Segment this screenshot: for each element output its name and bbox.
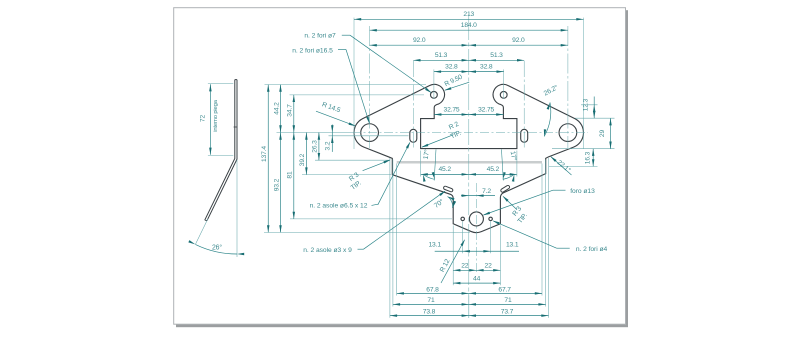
dim 44 [453, 282, 500, 284]
left ear tip ext [353, 18, 355, 149]
bend line (gray) [397, 161, 542, 164]
left slot centerline/ext [412, 61, 414, 150]
ext tab right [516, 151, 518, 177]
slot 6.5x12 right [521, 129, 528, 142]
dim 81 [293, 133, 295, 219]
svg-text:51.3: 51.3 [490, 52, 503, 59]
dim 29 [610, 118, 612, 149]
right slot centerline/ext [523, 61, 525, 150]
dim 34.7 [293, 95, 295, 133]
ext y=104.8 [581, 104, 598, 106]
svg-text:34.7: 34.7 [287, 104, 294, 117]
svg-text:71: 71 [427, 297, 435, 304]
ext lines boss / holes [452, 226, 454, 286]
svg-text:32.75: 32.75 [478, 106, 494, 113]
dim 7.2 [461, 195, 495, 197]
26deg dimension arc [195, 244, 237, 254]
boss vertical centerline [475, 183, 477, 272]
dims 45.2 / 45.2 [421, 173, 517, 175]
ext lines bottom right notch [541, 164, 543, 296]
dim 137.4 [267, 85, 269, 233]
part outline (bracket flat pattern) [354, 84, 583, 232]
hole D16.5 left [361, 124, 379, 142]
ext line top of side view [208, 83, 233, 85]
hole D13 [469, 212, 483, 226]
slot 3x9 right [500, 185, 510, 193]
ext lines bottom left notch [389, 158, 391, 318]
dims 32.8 / 32.8 [434, 71, 504, 73]
svg-text:213: 213 [463, 11, 474, 18]
side view sheet profile [205, 80, 237, 221]
svg-text:92.0: 92.0 [512, 37, 525, 44]
svg-text:137.4: 137.4 [261, 146, 268, 162]
svg-text:72: 72 [200, 115, 207, 123]
svg-text:29: 29 [599, 130, 606, 138]
dims 71 / 71 [393, 303, 546, 305]
dim 44.2 [280, 85, 282, 133]
svg-text:39.2: 39.2 [299, 153, 306, 166]
dims 32.75 / 32.75 [434, 114, 503, 116]
dim 184.0 [370, 29, 568, 31]
ext ear bottom y=148.7 [552, 148, 615, 150]
right ear tip ext [583, 18, 585, 149]
dims 92.0 / 92.0 [370, 44, 568, 46]
dims 51.3 / 51.3 [413, 59, 524, 61]
hole D16.5 right [559, 124, 577, 142]
svg-text:7.2: 7.2 [482, 188, 491, 195]
horizontal centerline [352, 132, 588, 134]
svg-text:13.1: 13.1 [428, 241, 441, 248]
svg-text:n. 2 fori ø16.5: n. 2 fori ø16.5 [292, 47, 333, 54]
svg-text:92.0: 92.0 [413, 37, 426, 44]
svg-text:67.7: 67.7 [498, 287, 511, 294]
svg-text:n. 2 asole ø6.5 x 12: n. 2 asole ø6.5 x 12 [310, 203, 368, 210]
svg-text:45.2: 45.2 [487, 166, 500, 173]
svg-text:26°: 26° [212, 243, 222, 251]
svg-text:184.0: 184.0 [461, 22, 477, 29]
dims 13.1 / 13.1 [435, 250, 519, 252]
dim 93.2 [280, 133, 282, 233]
svg-text:foro ø13: foro ø13 [570, 188, 595, 195]
svg-text:67.8: 67.8 [426, 287, 439, 294]
svg-text:26.3: 26.3 [312, 140, 319, 153]
svg-text:3.2: 3.2 [325, 141, 332, 150]
ext centerline left [277, 132, 353, 134]
hole D7 left [431, 91, 438, 98]
left D7 ext [433, 69, 435, 99]
ext V bottom y=232.4 [264, 231, 470, 233]
svg-text:13.1: 13.1 [506, 241, 519, 248]
right D7 ext [503, 69, 505, 99]
dims 67.8 / 67.7 [397, 292, 542, 294]
ext y=166.4 [549, 165, 598, 167]
dim 72 line [209, 84, 211, 155]
svg-text:32.75: 32.75 [444, 106, 460, 113]
slot 3x9 left [443, 186, 453, 193]
ext notch top y=160.2 [315, 159, 390, 161]
dim 213 [354, 18, 584, 20]
svg-text:n. 2 fori ø4: n. 2 fori ø4 [576, 246, 608, 253]
svg-text:73.8: 73.8 [423, 308, 436, 315]
drawing sheet shadow [176, 10, 628, 327]
vertical centerline [468, 14, 470, 318]
dim 39.2 [305, 133, 307, 175]
dims 22 / 22 [453, 269, 500, 271]
svg-text:32.8: 32.8 [480, 63, 493, 70]
dims 73.8 / 73.7 [390, 315, 549, 317]
svg-text:73.7: 73.7 [501, 308, 514, 315]
svg-text:12.3: 12.3 [582, 98, 589, 111]
svg-text:n. 2 fori ø7: n. 2 fori ø7 [304, 33, 336, 40]
ext tab left [420, 151, 422, 177]
svg-text:71: 71 [504, 297, 512, 304]
ext ear top y=118.2 [575, 117, 615, 119]
ext notch bottom y=174.6 [302, 174, 391, 176]
hole D4 left [461, 217, 465, 221]
svg-text:81: 81 [287, 171, 294, 179]
left hole vertical centerline/ext [369, 26, 371, 148]
ext top of part y=84.6 [265, 84, 427, 86]
svg-text:44.2: 44.2 [273, 102, 280, 115]
dim 26.3 [318, 133, 320, 161]
dim 12.3 [593, 97, 595, 119]
svg-text:93.2: 93.2 [273, 178, 280, 191]
ext D13 center y=218.9 [290, 218, 452, 220]
svg-text:interno piega: interno piega [213, 99, 219, 131]
dim 3.2 (outside arrows) [331, 125, 333, 152]
svg-text:51.3: 51.3 [435, 52, 448, 59]
svg-text:44: 44 [473, 276, 481, 283]
svg-text:32.8: 32.8 [445, 63, 458, 70]
right hole vertical centerline/ext [567, 26, 569, 148]
ext line bend point of side view [208, 154, 233, 156]
dim 16.3 [592, 149, 594, 167]
hole D7 right [500, 91, 507, 98]
ext line vertical for 26deg [236, 160, 238, 257]
drawing sheet frame [174, 8, 626, 325]
svg-text:45.2: 45.2 [438, 166, 451, 173]
26deg extension of bent sheet [196, 219, 208, 244]
svg-text:22: 22 [461, 263, 469, 270]
slot 6.5x12 left [410, 129, 417, 142]
ext slot center y=135.8 [329, 135, 409, 137]
svg-text:22: 22 [485, 263, 493, 270]
ext D7 center y=94.85 [290, 94, 425, 96]
svg-text:16.3: 16.3 [585, 151, 592, 164]
hole D4 right [489, 217, 493, 221]
svg-text:n. 2 asole ø3 x 9: n. 2 asole ø3 x 9 [303, 247, 352, 254]
